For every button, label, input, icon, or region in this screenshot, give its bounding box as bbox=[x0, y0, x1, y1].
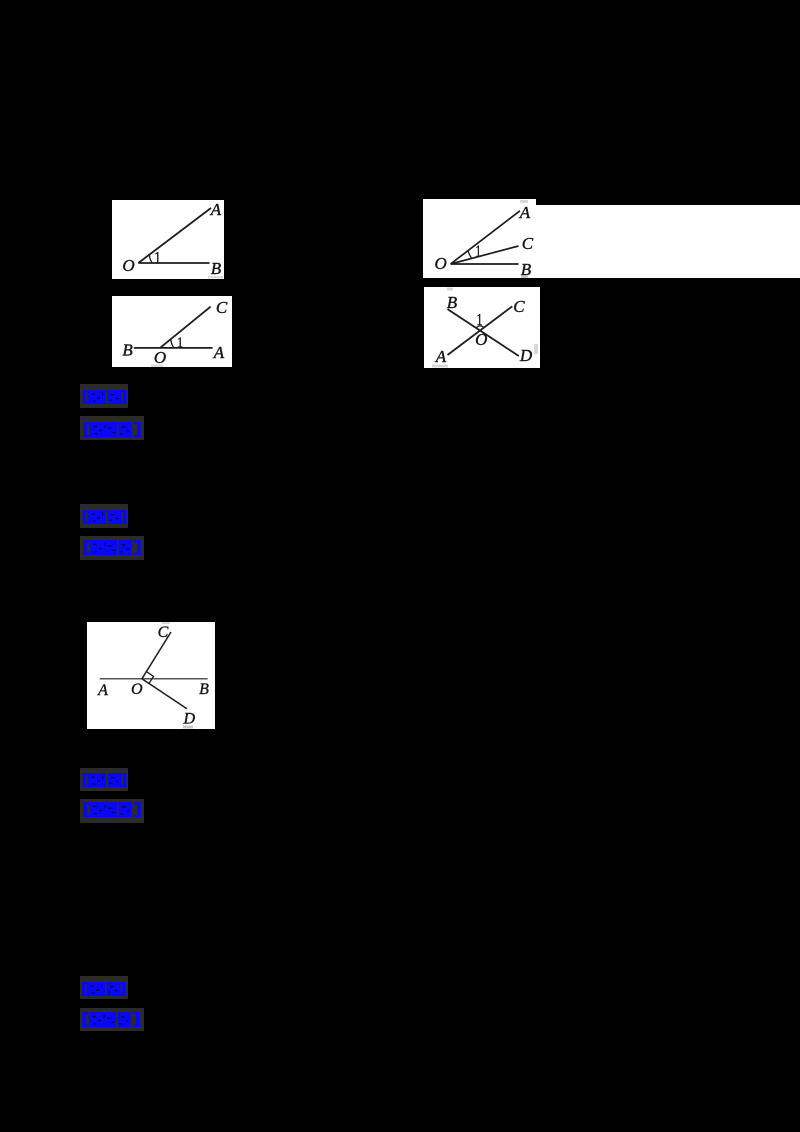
svg-text:B: B bbox=[521, 260, 532, 278]
figure 2 white strip to right edge bbox=[536, 205, 800, 278]
answer label 4b gray box bbox=[80, 1008, 144, 1031]
answer label 4a blue text bbox=[81, 982, 126, 996]
svg-text:1: 1 bbox=[154, 248, 161, 267]
answer label 3b blue text bbox=[82, 802, 143, 817]
ray OA bbox=[451, 211, 521, 264]
answer label 3a gray box bbox=[80, 768, 128, 791]
figure 2 panel (angle AOB with ray OC, angle 1) bbox=[423, 199, 536, 278]
figure 5 panel (line AOB, ray OC up, ray OD down, right angle mark) bbox=[87, 622, 215, 729]
svg-text:1: 1 bbox=[475, 242, 481, 261]
smudge top bbox=[447, 288, 453, 291]
svg-text:O: O bbox=[122, 256, 134, 275]
svg-text:O: O bbox=[475, 330, 487, 349]
line B to D bbox=[448, 309, 519, 356]
smudge above A bbox=[520, 200, 528, 203]
answer label 3a blue text bbox=[82, 773, 127, 787]
svg-text:C: C bbox=[215, 298, 227, 317]
answer label 2a gray box bbox=[80, 504, 128, 528]
right angle mark bbox=[147, 672, 154, 684]
ray OC bbox=[160, 306, 211, 347]
figure 1 panel (angle AOB with angle 1) bbox=[112, 200, 224, 279]
svg-text:D: D bbox=[183, 711, 196, 728]
ray OC bbox=[451, 246, 519, 264]
svg-text:D: D bbox=[519, 346, 533, 365]
ray OA slanted bbox=[138, 208, 211, 263]
svg-text:A: A bbox=[98, 682, 109, 699]
svg-text:A: A bbox=[210, 200, 222, 219]
answer label 2a blue text bbox=[82, 510, 127, 524]
angle 1 arc bbox=[150, 254, 153, 262]
angle 1 arc bbox=[170, 339, 173, 348]
line BA horizontal bbox=[133, 347, 212, 349]
svg-text:C: C bbox=[158, 624, 169, 641]
smudge under B bbox=[208, 276, 223, 279]
svg-text:B: B bbox=[200, 681, 210, 698]
svg-text:O: O bbox=[153, 348, 165, 367]
answer label 1a blue text bbox=[82, 390, 127, 404]
answer label 1b gray box bbox=[80, 416, 144, 440]
svg-text:O: O bbox=[435, 254, 447, 273]
smudge bottom center bbox=[151, 364, 163, 367]
svg-text:B: B bbox=[447, 293, 458, 312]
smudge top bbox=[162, 622, 170, 624]
svg-text:1: 1 bbox=[176, 335, 182, 351]
svg-text:C: C bbox=[513, 297, 525, 316]
line A to C bbox=[448, 307, 513, 356]
answer label 1b blue text bbox=[82, 422, 143, 437]
ray OD bbox=[142, 679, 187, 709]
figure 3 panel (line BOA with ray OC, angle 1) bbox=[112, 296, 232, 367]
answer label 1a gray box bbox=[80, 384, 128, 408]
answer label 2b gray box bbox=[80, 536, 144, 560]
blue answer label defs bbox=[0, 0, 1, 1]
line AB horizontal bbox=[100, 678, 208, 680]
svg-text:C: C bbox=[522, 234, 534, 253]
ray OC bbox=[142, 632, 171, 679]
angle 1 arc bbox=[468, 251, 472, 259]
figure 4 panel (lines AC and BD crossing at O, angle 1) bbox=[424, 287, 540, 368]
angle 1 arc bbox=[476, 326, 484, 328]
smudge bottom left bbox=[432, 365, 448, 368]
svg-text:B: B bbox=[122, 340, 133, 359]
svg-text:B: B bbox=[211, 259, 222, 278]
svg-text:A: A bbox=[212, 343, 224, 362]
svg-text:A: A bbox=[519, 203, 531, 222]
svg-text:O: O bbox=[131, 681, 143, 698]
answer label 4a gray box bbox=[80, 976, 128, 999]
answer label 3b gray box bbox=[80, 799, 144, 823]
ray OB horizontal bbox=[138, 262, 209, 264]
ray OB horizontal bbox=[451, 263, 519, 265]
answer label 4b blue text bbox=[81, 1012, 142, 1027]
answer label 2b blue text bbox=[82, 540, 143, 555]
smudge below B bbox=[521, 276, 528, 279]
svg-text:1: 1 bbox=[476, 312, 482, 330]
smudge right of D bbox=[534, 344, 538, 354]
smudge below D bbox=[183, 726, 193, 729]
svg-text:A: A bbox=[435, 347, 447, 366]
